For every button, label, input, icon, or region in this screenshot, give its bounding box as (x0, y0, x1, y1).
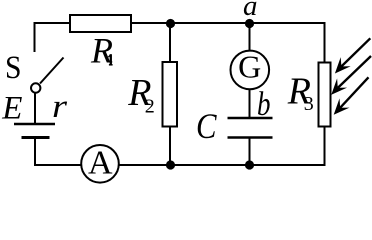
svg-text:C: C (196, 106, 217, 146)
svg-text:b: b (257, 86, 271, 123)
svg-text:S: S (5, 50, 22, 86)
svg-text:3: 3 (304, 93, 314, 115)
svg-text:2: 2 (145, 95, 155, 117)
svg-text:A: A (88, 144, 113, 181)
svg-text:E: E (1, 91, 22, 127)
svg-text:r: r (52, 89, 67, 125)
svg-text:G: G (238, 49, 261, 85)
svg-text:a: a (243, 0, 258, 22)
